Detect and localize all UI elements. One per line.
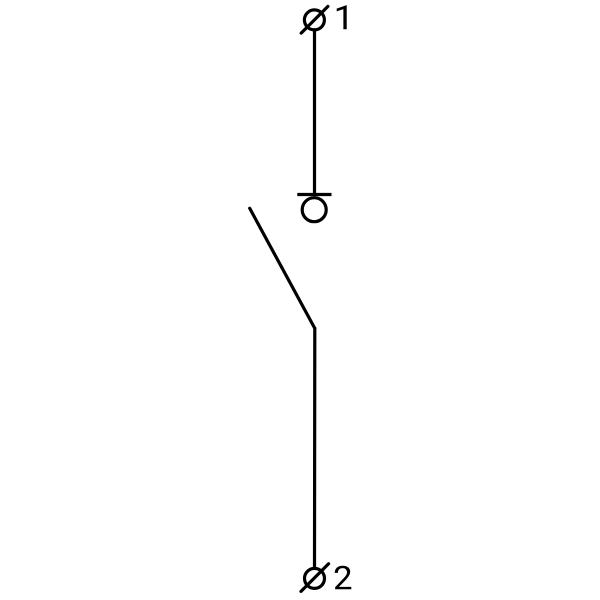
wire terminal 1 to switch [313, 30, 316, 195]
pin number 1 [337, 5, 347, 29]
switch lever [250, 208, 315, 328]
terminal 1 [301, 6, 328, 33]
wire switch to terminal 2 [313, 328, 316, 566]
terminal 2 [301, 564, 329, 592]
switch fixed contact circle [302, 198, 326, 222]
pin number 2 [335, 566, 352, 590]
switch fixed contact bar [297, 193, 331, 196]
